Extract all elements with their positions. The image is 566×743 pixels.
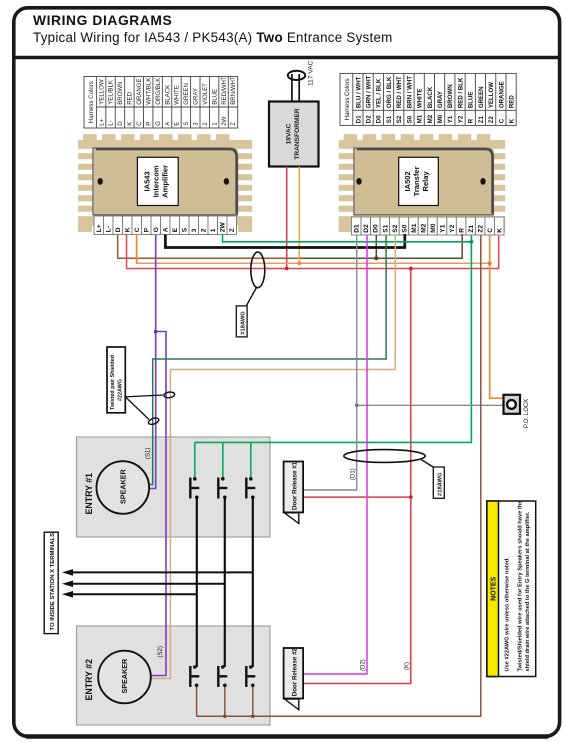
transformer plug prongs [291, 74, 293, 102]
svg-text:M0: M0 [430, 223, 437, 232]
amplifier U1 (IA543 Intercom Amplifier) body [93, 148, 238, 215]
svg-text:Y2: Y2 [449, 224, 456, 232]
svg-text:2: 2 [201, 228, 208, 232]
svg-text:Y1: Y1 [439, 224, 446, 232]
svg-text:ENTRY #2: ENTRY #2 [84, 659, 94, 701]
wire net Z2 (relay Z2 brown to entry 2 buttons) [197, 235, 481, 716]
svg-text:SPEAKER: SPEAKER [119, 468, 128, 504]
svg-text:RED: RED [508, 95, 515, 108]
wire net D2 (relay D2 magenta to door release 2) [303, 235, 367, 674]
svg-text:ORANGE: ORANGE [136, 78, 143, 104]
svg-text:M1: M1 [417, 114, 424, 123]
P.O. lock [504, 395, 521, 414]
svg-text:ORG/BLK: ORG/BLK [155, 78, 162, 105]
svg-text:TO INSIDE STATION X TERMINALS: TO INSIDE STATION X TERMINALS [50, 533, 56, 631]
svg-text:L+: L+ [98, 118, 105, 125]
svg-text:ENTRY #1: ENTRY #1 [84, 473, 94, 515]
svg-text:WHITE: WHITE [417, 88, 424, 108]
wire red branch to door releases [303, 269, 411, 684]
junction node orange at C bus [488, 261, 492, 265]
svg-text:Amplifier: Amplifier [160, 165, 169, 198]
arrow to inside station (top) [70, 571, 253, 573]
svg-text:BRN/WHT: BRN/WHT [230, 76, 237, 105]
svg-text:SPEAKER: SPEAKER [120, 658, 129, 694]
svg-text:NOTES: NOTES [491, 576, 498, 600]
svg-text:BRN / WHT: BRN / WHT [406, 76, 413, 108]
notes box [487, 501, 536, 677]
push button S1b (entry 1) [218, 478, 227, 499]
leader line bundle 1 [247, 288, 257, 306]
svg-text:S: S [182, 227, 189, 232]
wire brown button stubs entry 2 [196, 685, 198, 716]
transformer label [286, 108, 302, 160]
svg-text:Transfer: Transfer [412, 166, 421, 196]
svg-text:C: C [136, 121, 143, 126]
svg-text:Z2: Z2 [478, 225, 485, 233]
svg-text:2W: 2W [221, 116, 228, 125]
svg-text:GRN / WHT: GRN / WHT [366, 75, 373, 108]
junction node gray [355, 403, 359, 407]
label twisted pair shielded [125, 395, 163, 397]
svg-text:L-: L- [108, 120, 115, 125]
svg-text:#22AWG: #22AWG [117, 379, 123, 401]
svg-text:Relay: Relay [421, 170, 430, 191]
svg-text:Z1: Z1 [478, 115, 485, 123]
cable bundle marker 2 (flat ellipse) [344, 450, 425, 463]
push button S2c (entry 2) [246, 666, 255, 687]
wire red to door release 1 [303, 496, 411, 498]
transformer plug face [288, 71, 305, 80]
svg-text:18VAC: 18VAC [286, 123, 293, 144]
svg-text:TRANSFORMER: TRANSFORMER [294, 108, 301, 160]
wire amp C vertical orange overpaint [136, 235, 138, 264]
svg-text:L+: L+ [96, 224, 103, 232]
svg-text:D1: D1 [354, 224, 361, 233]
svg-text:D0: D0 [376, 115, 383, 123]
svg-text:L-: L- [106, 226, 113, 232]
push button S1c (entry 1) [246, 478, 255, 499]
transformer T1 body [269, 102, 319, 167]
shield marker ellipse on pair to entry 2 [164, 391, 175, 398]
svg-text:BLUE: BLUE [211, 89, 218, 105]
svg-text:117 VAC: 117 VAC [308, 60, 315, 86]
svg-text:Typical Wiring for IA543 / PK5: Typical Wiring for IA543 / PK543(A) Two … [33, 30, 393, 45]
svg-text:Z: Z [230, 122, 237, 126]
svg-text:Z: Z [229, 228, 236, 232]
svg-text:RED: RED [127, 91, 134, 104]
svg-text:C: C [487, 228, 494, 233]
svg-text:M2: M2 [427, 114, 434, 123]
svg-text:Door Release #2: Door Release #2 [292, 647, 299, 696]
svg-text:G: G [153, 227, 160, 232]
wire relay C vertical to P.O. lock [490, 235, 504, 398]
svg-text:M2: M2 [420, 223, 427, 232]
svg-text:S1: S1 [382, 224, 389, 232]
wire relay Z1 vertical to entry 1 buttons [195, 235, 472, 442]
wire gray branch to P.O. lock [357, 404, 504, 406]
wire net C horizontal (amp C to relay C, tan-orange) [137, 235, 490, 264]
svg-text:#18AWG: #18AWG [438, 472, 444, 496]
svg-text:D1: D1 [355, 115, 362, 123]
amplifier U1 (IA543 Intercom Amplifier) terminal strip [94, 216, 237, 235]
svg-text:E: E [172, 227, 179, 232]
svg-text:IA543: IA543 [142, 171, 151, 191]
label #18AWG (bundle 1) [236, 306, 247, 337]
arrow to inside station (bottom) [70, 593, 197, 595]
svg-text:E: E [174, 122, 181, 126]
svg-text:2W: 2W [220, 222, 227, 233]
wire net D (amp D to relay R, brown) [118, 235, 300, 259]
svg-text:Y1: Y1 [447, 115, 454, 123]
svg-text:Y2: Y2 [457, 115, 464, 123]
svg-text:YEL/BLK: YEL/BLK [108, 80, 115, 105]
speaker LS1 (entry 1) [97, 461, 150, 514]
svg-text:(D1): (D1) [351, 468, 357, 480]
shield marker ellipse on pair to entry 1 [148, 417, 160, 426]
harness colors table (relay) [340, 73, 516, 125]
junction node green 2W-Z1 [470, 240, 474, 244]
svg-text:Use #22AWG wire unless otherwi: Use #22AWG wire unless otherwise noted. [505, 557, 511, 672]
svg-text:S: S [183, 122, 190, 126]
svg-text:Twisted/Shielded wire used for: Twisted/Shielded wire used for Entry Spe… [518, 501, 524, 672]
svg-text:BROWN: BROWN [447, 84, 454, 108]
svg-text:VIOLET: VIOLET [202, 83, 209, 105]
svg-text:Twisted pair Shielded: Twisted pair Shielded [110, 355, 116, 410]
svg-text:D2: D2 [363, 224, 370, 233]
svg-text:Harness Colors: Harness Colors [88, 81, 95, 123]
wire net S1 (relay S1 dark green to entry 1 speaker) [150, 235, 387, 485]
push button S2a (entry 2) [190, 666, 199, 687]
svg-text:K: K [127, 122, 134, 126]
relay U2 (IA502 Transfer Relay) body [354, 148, 494, 215]
svg-text:BLACK: BLACK [164, 85, 171, 105]
svg-text:WHITE: WHITE [174, 85, 181, 105]
wire violet branch to entry 2 speaker [151, 332, 166, 676]
svg-text:(S2): (S2) [158, 646, 164, 657]
svg-text:S2: S2 [392, 224, 399, 232]
svg-text:(S1): (S1) [146, 448, 152, 459]
svg-text:S2: S2 [396, 115, 403, 123]
svg-text:IA502: IA502 [403, 171, 412, 191]
push button S2b (entry 2) [218, 666, 227, 687]
svg-text:S0: S0 [406, 115, 413, 123]
junction nodes brown bus [223, 715, 227, 719]
svg-text:GRAY: GRAY [437, 91, 444, 108]
svg-text:YEL / BLK: YEL / BLK [376, 78, 383, 108]
svg-text:G: G [155, 121, 162, 126]
harness colors table (amplifier) [84, 77, 238, 129]
svg-text:BROWN: BROWN [117, 81, 124, 104]
svg-text:RED / WHT: RED / WHT [396, 76, 403, 108]
wire black button column b [224, 497, 226, 667]
svg-text:GREEN: GREEN [478, 86, 485, 108]
svg-text:BLUE: BLUE [468, 92, 475, 109]
amplifier U1 (IA543 Intercom Amplifier) screw holes [98, 178, 103, 185]
relay U2 (IA502 Transfer Relay) terminal strip [352, 217, 505, 235]
wire stub D0 (relay D0 to brown bus) [375, 235, 377, 258]
svg-text:ORANGE: ORANGE [498, 81, 505, 108]
svg-text:C: C [134, 227, 141, 232]
svg-text:ORG / BLK: ORG / BLK [386, 76, 393, 108]
wire net K (amp K to relay K, red) [127, 235, 499, 269]
leader line bundle 2 [421, 460, 434, 468]
wire net S2 (relay S2 tan to entry 2 speaker) [151, 235, 395, 679]
label #18AWG (bundle 2) [433, 467, 444, 498]
svg-text:K: K [508, 118, 515, 123]
wire black button column a [196, 497, 198, 667]
junction node on brown bus at D0 [374, 256, 378, 260]
svg-text:M1: M1 [411, 223, 418, 232]
svg-text:GREEN: GREEN [183, 83, 190, 105]
junction node red at transformer [285, 267, 289, 271]
svg-text:GRAY: GRAY [193, 88, 200, 105]
relay U2 (IA502 Transfer Relay) mounting flange with heatsink teeth [336, 134, 509, 232]
svg-text:YELLOW: YELLOW [488, 82, 495, 108]
svg-text:YELLOW: YELLOW [98, 79, 105, 105]
svg-text:P.O. LOCK: P.O. LOCK [524, 399, 530, 428]
junction node orange at transformer [297, 261, 301, 265]
header separator line [14, 56, 560, 59]
push button S1a (entry 1) [190, 478, 199, 499]
wire net 2W-Z1 (green bus) [223, 235, 472, 242]
page frame bottom thick edge [26, 734, 548, 739]
svg-text:D: D [115, 227, 122, 232]
svg-text:RED / BLK: RED / BLK [457, 77, 464, 108]
svg-text:K: K [125, 227, 132, 232]
svg-text:D: D [117, 121, 124, 126]
wire net A-S0 (amp A to relay S0, black) [165, 234, 404, 248]
cable bundle marker 1 (vertical ellipse) [251, 252, 265, 288]
svg-text:WIRING DIAGRAMS: WIRING DIAGRAMS [33, 13, 172, 28]
wire transformer secondary red drop [286, 167, 288, 269]
svg-text:P: P [144, 227, 151, 232]
svg-text:Z2: Z2 [488, 115, 495, 123]
svg-text:M0: M0 [437, 114, 444, 123]
entry 1 enclosure box [77, 437, 271, 537]
door release 1 banner [284, 462, 304, 513]
svg-text:(D2): (D2) [361, 659, 367, 671]
svg-text:P: P [145, 122, 152, 126]
svg-text:Intercom: Intercom [151, 165, 160, 197]
speaker LS2 (entry 2) [98, 651, 151, 704]
svg-text:#18AWG: #18AWG [240, 311, 246, 335]
entry 2 enclosure box [77, 626, 271, 725]
label to inside station terminals [44, 532, 58, 633]
svg-text:R: R [459, 228, 466, 233]
svg-text:RED/WHT: RED/WHT [221, 76, 228, 105]
arrow to inside station (middle) [70, 583, 225, 585]
wire black button column c [252, 497, 254, 667]
svg-text:D0: D0 [373, 224, 380, 233]
svg-text:3: 3 [191, 228, 198, 232]
svg-text:R: R [468, 118, 475, 123]
relay U2 (IA502 Transfer Relay) screw holes [356, 178, 361, 185]
svg-text:shield drain wire attached to: shield drain wire attached to the G term… [525, 511, 531, 671]
svg-text:S1: S1 [386, 115, 393, 123]
svg-text:BLU / WHT: BLU / WHT [355, 76, 362, 108]
junction node red at door release 1 tap [409, 495, 413, 499]
svg-text:1: 1 [210, 228, 217, 232]
wire transformer secondary orange drop [298, 167, 300, 264]
wire green button risers entry 1 [194, 442, 196, 478]
junction node violet split [154, 330, 158, 334]
svg-text:Harness Colors: Harness Colors [344, 78, 351, 120]
svg-text:Z1: Z1 [468, 225, 475, 233]
svg-text:K: K [497, 228, 504, 233]
relay U2 (IA502 Transfer Relay) label plate [399, 157, 439, 205]
svg-text:C: C [498, 118, 505, 123]
wire net D1 (relay D1 gray to door release 1) [303, 235, 357, 490]
amplifier U1 (IA543 Intercom Amplifier) label plate [137, 157, 178, 205]
svg-text:WHT/BLK: WHT/BLK [145, 78, 152, 105]
svg-text:BLACK: BLACK [427, 86, 434, 108]
amplifier U1 (IA543 Intercom Amplifier) mounting flange with heatsink teeth [75, 134, 255, 232]
svg-text:D2: D2 [366, 115, 373, 123]
door release 2 banner [284, 648, 304, 699]
svg-text:S0: S0 [401, 224, 408, 232]
junction node red branch [409, 267, 413, 271]
svg-text:A: A [163, 227, 170, 232]
svg-text:Door Release #1: Door Release #1 [292, 461, 299, 510]
wire net G (amp G violet to both speakers) [150, 235, 156, 489]
svg-text:(K): (K) [405, 662, 411, 670]
